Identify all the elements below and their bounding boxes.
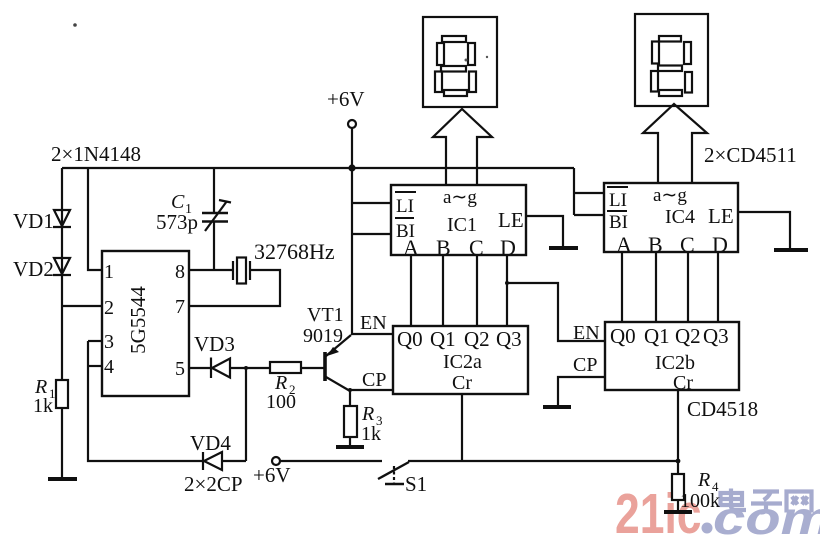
wire corner up to VD3 output <box>245 368 247 461</box>
display DS2 segment a <box>659 36 681 42</box>
node Q3 branch <box>505 281 509 285</box>
wire BI stub IC1 <box>352 233 391 235</box>
watermark chinese dian <box>721 489 747 511</box>
display DS1 segment b <box>468 43 475 65</box>
ground at LE IC4 <box>774 248 808 252</box>
wire IC1 D to IC2a Q3 <box>506 255 508 326</box>
capacitor C1 trimmer <box>213 168 215 212</box>
display DS2 segment g <box>658 66 682 72</box>
wire pin2 <box>62 305 102 307</box>
svg-text:2: 2 <box>104 297 114 319</box>
diode VD4 <box>203 452 222 470</box>
svg-text:BI: BI <box>609 212 628 233</box>
node emitter junction <box>348 388 352 392</box>
speck <box>73 23 77 27</box>
node reset junction <box>676 459 681 464</box>
resistor R1 <box>56 380 68 408</box>
display DS2 box <box>635 14 708 106</box>
svg-text:1k: 1k <box>361 423 381 445</box>
watermark dot <box>702 523 713 534</box>
wire emitter to R3 <box>349 390 351 406</box>
svg-text:B: B <box>436 235 451 260</box>
wire IC4 B to IC2b Q1 <box>655 252 657 322</box>
svg-text:VD1: VD1 <box>13 209 54 233</box>
svg-text:573p: 573p <box>156 210 198 234</box>
display DS1 segment f <box>437 43 444 65</box>
svg-text:LI: LI <box>396 196 414 217</box>
svg-text:LE: LE <box>498 208 524 232</box>
svg-text:5: 5 <box>175 358 185 380</box>
wire IC1 A to IC2a Q0 <box>410 255 412 326</box>
wire S1 to reset line <box>408 460 677 462</box>
svg-text:5G5544: 5G5544 <box>126 286 150 354</box>
arrow IC4 to DS2 <box>643 104 707 184</box>
transistor VT1 collector with arrow <box>326 335 351 356</box>
speck <box>486 56 488 58</box>
ground under R1 <box>48 477 77 481</box>
svg-text:IC2b: IC2b <box>655 352 695 374</box>
display DS2 segment b <box>684 42 691 64</box>
svg-text:R: R <box>361 403 374 425</box>
wire Q3 to EN of IC2b <box>507 283 605 341</box>
svg-text:VD3: VD3 <box>194 332 235 356</box>
speck <box>465 59 468 62</box>
svg-text:LE: LE <box>708 204 734 228</box>
resistor R4 <box>672 474 684 500</box>
svg-text:3: 3 <box>104 331 114 353</box>
svg-text:EN: EN <box>360 312 387 334</box>
svg-text:Q1: Q1 <box>430 327 456 351</box>
display DS1 segment g <box>441 66 466 72</box>
wire pin3/4 vertical down to VD4 line <box>88 341 203 461</box>
svg-text:8: 8 <box>175 261 185 283</box>
svg-text:com: com <box>713 494 820 539</box>
svg-text:D: D <box>500 235 516 260</box>
resistor R2 <box>270 362 301 373</box>
svg-text:IC1: IC1 <box>447 214 477 236</box>
diode VD1 <box>53 210 71 227</box>
IC4 box <box>604 183 738 252</box>
IC 5G5544 box <box>102 251 189 396</box>
wire R3 to ground <box>349 437 351 447</box>
display DS2 segment d <box>659 90 682 96</box>
svg-text:LI: LI <box>609 190 627 211</box>
svg-text:S1: S1 <box>405 472 427 496</box>
svg-text:a∼g: a∼g <box>653 185 687 206</box>
switch S1 blade <box>378 462 409 479</box>
wire +6V to S1 <box>280 460 382 462</box>
svg-text:2×1N4148: 2×1N4148 <box>51 142 141 166</box>
wire LI stub IC1 <box>352 202 391 204</box>
svg-text:Q0: Q0 <box>397 327 423 351</box>
svg-text:1k: 1k <box>33 395 53 417</box>
svg-text:CD4518: CD4518 <box>687 397 758 421</box>
ground at LE IC1 <box>549 246 578 250</box>
diode VD3 <box>211 358 230 379</box>
svg-text:+6V: +6V <box>253 463 291 487</box>
svg-text:EN: EN <box>573 322 600 344</box>
WATERMARK <box>615 482 820 539</box>
wire pin8 <box>189 269 233 271</box>
wire crystal right to pin7 <box>189 270 280 306</box>
wire R1 to ground <box>61 408 63 479</box>
wire pin4 <box>88 365 102 367</box>
svg-text:+6V: +6V <box>327 87 365 111</box>
wire IC1 C to IC2a Q2 <box>476 255 478 326</box>
svg-text:C: C <box>680 232 695 257</box>
display DS1 segment e <box>435 72 442 93</box>
svg-text:4: 4 <box>104 356 114 378</box>
svg-text:Q3: Q3 <box>703 324 729 348</box>
diode VD2 <box>53 258 71 275</box>
svg-text:Q1: Q1 <box>644 324 670 348</box>
svg-text:CP: CP <box>362 369 386 391</box>
display DS1 segment d <box>444 90 467 96</box>
svg-text:a∼g: a∼g <box>443 187 477 208</box>
svg-text:2×CD4511: 2×CD4511 <box>704 143 797 167</box>
IC2b box <box>605 322 739 390</box>
ground under R4 <box>664 510 692 514</box>
wire +6V terminal to rail <box>351 128 353 168</box>
wire rail corner to IC4 LI/BI <box>574 168 604 215</box>
wire LE IC4 to ground <box>738 212 790 249</box>
display DS1 segment a <box>442 36 466 42</box>
wire VD4 to corner <box>222 460 246 462</box>
display DS1 segment c <box>469 72 476 93</box>
wire Cr IC2b down to R4 <box>677 390 679 474</box>
wire Cr IC2a down <box>461 394 463 461</box>
svg-text:A: A <box>403 235 419 260</box>
svg-text:VD4: VD4 <box>190 431 231 455</box>
svg-text:IC2a: IC2a <box>443 351 482 373</box>
crystal 32768Hz <box>232 261 234 280</box>
svg-text:100k: 100k <box>680 490 720 512</box>
wire VD3 to R2 <box>230 367 270 369</box>
svg-text:VD2: VD2 <box>13 257 54 281</box>
power +6V terminal top <box>348 120 356 128</box>
svg-text:R: R <box>697 469 710 491</box>
wire CP IC2b to ground <box>558 377 605 406</box>
transistor VT1 emitter <box>326 377 350 391</box>
svg-text:9019: 9019 <box>303 325 343 347</box>
display DS2 segment e <box>651 71 658 92</box>
IC2a box <box>393 326 528 394</box>
transistor VT1 base bar <box>323 352 327 381</box>
svg-text:1: 1 <box>104 261 114 283</box>
wire R2 to base <box>301 367 324 369</box>
wire LE IC1 to ground <box>526 216 563 247</box>
wire R4 to ground <box>677 500 679 512</box>
svg-text:100: 100 <box>266 391 296 413</box>
power +6V terminal bottom <box>272 457 280 465</box>
wire +6V vertical to transistor <box>351 168 353 335</box>
svg-text:Cr: Cr <box>452 372 472 394</box>
wire IC4 C to IC2b Q2 <box>687 252 689 322</box>
svg-text:2×2CP: 2×2CP <box>184 472 243 496</box>
svg-text:A: A <box>616 232 632 257</box>
switch S1 actuator <box>393 466 395 483</box>
IC1 box <box>391 185 526 255</box>
display DS2 segment c <box>685 72 692 93</box>
wire pin5 to VD3 <box>189 367 211 369</box>
wire left branch vertical VD1 VD2 R1 <box>61 168 63 380</box>
watermark chinese wang <box>787 492 812 513</box>
wire CP of IC2a <box>350 389 393 391</box>
svg-text:C: C <box>469 235 484 260</box>
svg-text:Q2: Q2 <box>675 324 701 348</box>
svg-text:IC4: IC4 <box>665 206 695 228</box>
watermark chinese zi <box>751 492 782 513</box>
svg-text:Q3: Q3 <box>496 327 522 351</box>
wire +6V top rail <box>62 167 574 169</box>
wire IC1 B to IC2a Q1 <box>442 255 444 326</box>
arrow IC1 to DS1 <box>433 109 492 186</box>
svg-text:Q2: Q2 <box>464 327 490 351</box>
svg-text:Cr: Cr <box>673 372 693 394</box>
display DS2 segment f <box>652 42 659 64</box>
svg-text:D: D <box>712 232 728 257</box>
ground under R3 <box>336 445 364 449</box>
resistor R3 <box>344 406 357 437</box>
svg-text:32768Hz: 32768Hz <box>254 239 335 264</box>
svg-text:VT1: VT1 <box>307 304 344 326</box>
wire pin1 branch <box>88 168 102 270</box>
svg-text:CP: CP <box>573 354 597 376</box>
wire IC4 A to IC2b Q0 <box>621 252 623 322</box>
ground at CP IC2b <box>543 405 571 409</box>
wire EN of IC2a <box>352 333 393 335</box>
svg-text:Q0: Q0 <box>610 324 636 348</box>
node junction rail/+6V <box>348 164 355 171</box>
wire IC4 D to IC2b Q3 <box>717 252 719 322</box>
node VD3/VD4 tee <box>244 366 248 370</box>
wire pin3 <box>88 340 102 342</box>
display DS1 box <box>423 17 497 107</box>
svg-text:B: B <box>648 232 663 257</box>
svg-text:7: 7 <box>175 296 185 318</box>
